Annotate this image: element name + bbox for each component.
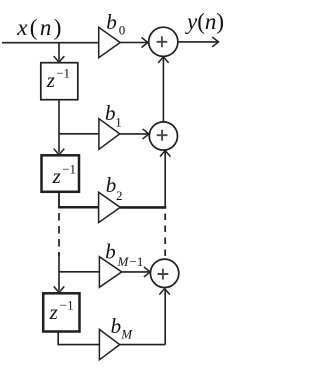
wire dashed continuation left column — [58, 213, 60, 256]
svg-text:z: z — [49, 300, 58, 324]
svg-text:z: z — [52, 164, 61, 188]
wire bM output up to adder 3 — [120, 290, 166, 345]
multiplier b1 triangle — [99, 119, 120, 150]
wire up from b2 junction to adder2 — [164, 152, 166, 207]
adder 3 — [150, 259, 178, 287]
svg-text:−1: −1 — [130, 254, 144, 269]
svg-text:1: 1 — [115, 115, 122, 130]
multiplier b2 triangle — [99, 192, 121, 222]
wire b1 tap — [59, 133, 99, 135]
svg-text:−1: −1 — [62, 162, 76, 177]
wire delay2 bottom to b2 tap (bold) — [58, 192, 60, 208]
multiplier b0 triangle — [99, 27, 121, 57]
adder 2 — [149, 122, 177, 150]
wire left column resume to delay3 with bM-1 tap — [58, 253, 60, 291]
svg-text:M: M — [120, 327, 133, 342]
delay block z^-1 #2 (bold) — [42, 155, 80, 192]
delay block z^-1 #1 — [41, 63, 78, 100]
svg-text:0: 0 — [119, 23, 126, 38]
wire adder1 output to y(n) — [178, 41, 218, 43]
wire input horizontal line to b0 multiplier — [2, 42, 99, 44]
svg-text:b: b — [105, 101, 116, 125]
svg-text:b: b — [111, 314, 122, 338]
svg-text:b: b — [106, 173, 117, 197]
wire b2 output to right column (bold) — [120, 206, 166, 209]
delay block z^-1 #3 (bold) — [43, 293, 79, 331]
wire b1 output to adder 2 — [120, 133, 148, 135]
wire delay1 to delay2 with b1 tap junction — [58, 100, 60, 153]
svg-text:2: 2 — [116, 188, 123, 203]
wire dashed continuation right column — [164, 214, 166, 258]
multiplier bM-1 triangle — [99, 257, 121, 288]
wire bM-1 tap — [59, 271, 99, 273]
svg-text:b: b — [105, 240, 116, 264]
wire b2 tap (bold) — [58, 206, 99, 209]
svg-text:y(n): y(n) — [185, 9, 224, 34]
svg-text:x(n): x(n) — [16, 15, 64, 40]
multiplier bM triangle — [99, 329, 119, 359]
svg-text:z: z — [46, 68, 55, 92]
svg-text:M: M — [117, 254, 130, 269]
svg-text:−1: −1 — [56, 66, 70, 81]
wire b0 output to adder 1 — [120, 42, 146, 44]
wire delay3 bottom to bM tap — [58, 332, 99, 345]
wire bM-1 output to adder 3 — [122, 271, 149, 273]
svg-text:b: b — [106, 10, 117, 34]
wire branch down from input line to first delay — [58, 43, 60, 61]
wire adder2 output up to adder1 — [162, 58, 164, 122]
adder 1 — [149, 27, 178, 56]
svg-text:−1: −1 — [60, 298, 74, 313]
